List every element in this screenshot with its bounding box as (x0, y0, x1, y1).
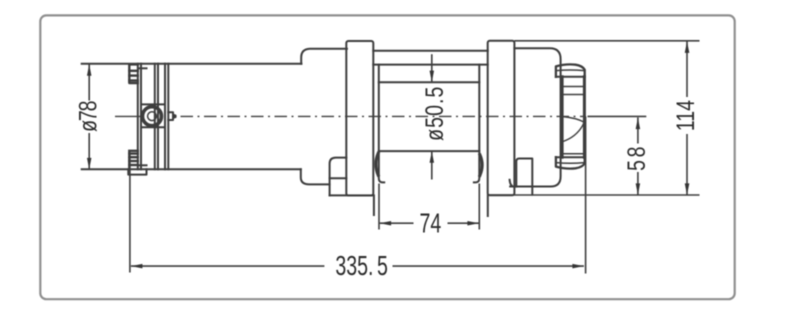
svg-text:335.5: 335.5 (335, 251, 388, 282)
svg-text:58: 58 (623, 144, 651, 171)
svg-text:ø50.5: ø50.5 (421, 86, 449, 141)
svg-text:74: 74 (420, 208, 442, 239)
svg-text:ø78: ø78 (74, 101, 102, 132)
svg-text:114: 114 (672, 100, 700, 131)
